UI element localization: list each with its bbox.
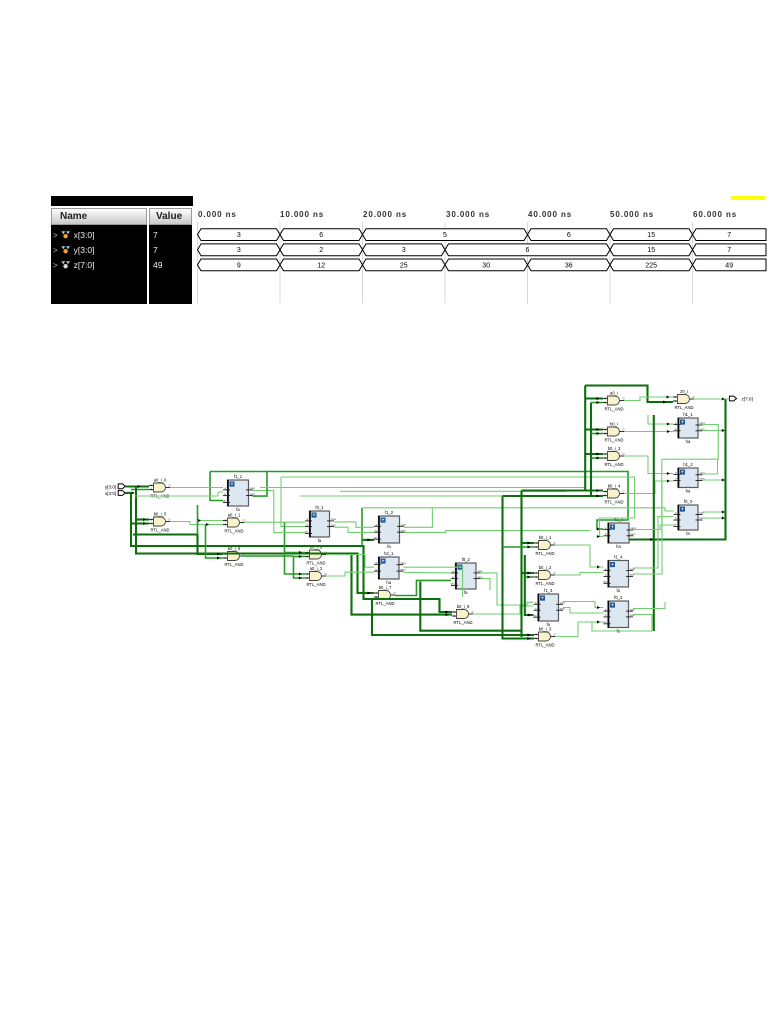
svg-text:O: O [554, 571, 556, 575]
wire junction [528, 634, 531, 637]
svg-text:cin: cin [223, 499, 227, 503]
block f0_4 (fa) [603, 595, 635, 634]
svg-text:fa: fa [318, 538, 322, 543]
wire junction [597, 428, 600, 431]
wire trunk bottom [420, 582, 521, 631]
wire top trunk to z0_i I1 [585, 386, 673, 403]
svg-text:O: O [169, 483, 171, 487]
svg-text:h2_1: h2_1 [384, 551, 394, 556]
block f1_1 (fa) [223, 474, 256, 512]
AND gate a0_i_2 [305, 566, 327, 587]
svg-text:RTL_AND: RTL_AND [375, 601, 394, 606]
AND gate b0_i_6 [305, 544, 327, 565]
svg-text:f0_1: f0_1 [315, 505, 324, 510]
wire junction [663, 401, 666, 404]
wire to h1_1 a [648, 415, 674, 424]
wire junction [667, 423, 670, 426]
AND gate b0_i_9 [223, 546, 245, 567]
svg-text:+: + [541, 596, 544, 601]
wire f1_4 sum up [633, 481, 662, 574]
svg-text:cin: cin [533, 613, 537, 617]
svg-text:30: 30 [482, 262, 490, 269]
svg-text:RTL_AND: RTL_AND [306, 582, 325, 587]
wire b0_i_2 O to f1_4 b [555, 573, 604, 576]
wire f1_1 sum riser [253, 472, 268, 497]
svg-text:RTL_AND: RTL_AND [150, 527, 169, 532]
svg-text:+: + [382, 559, 385, 564]
svg-text:ha: ha [386, 580, 391, 585]
svg-text:RTL_AND: RTL_AND [604, 406, 623, 411]
wire b0_i_1 O to f1_4 a [555, 545, 604, 567]
port y[3:0] [105, 484, 125, 489]
wire h1_3 sum trunk to z net [629, 400, 726, 540]
svg-text:f0_3: f0_3 [684, 499, 693, 504]
wire a0_i_2 O to h2_1 b [326, 572, 374, 576]
wire vertical trunk x585 [584, 386, 586, 491]
wire junction [650, 538, 653, 541]
svg-text:cin: cin [305, 530, 309, 534]
AND gate b0_i_3 [534, 626, 556, 647]
svg-text:RTL_AND: RTL_AND [453, 620, 472, 625]
wire junction [597, 535, 600, 538]
svg-text:3: 3 [402, 247, 406, 254]
block f1_4 (fa) [603, 555, 635, 594]
wire b0_i_3 O to f0_4 cin [555, 622, 604, 637]
wire junction [667, 430, 670, 433]
block h1_2 (ha) [674, 462, 706, 494]
wire to b0_i_4 I1 [503, 495, 604, 497]
svg-text:RTL_AND: RTL_AND [604, 437, 623, 442]
wire vertical trunk x591 [590, 403, 592, 497]
wire junction [597, 453, 600, 456]
AND gate b0_i_5 [149, 511, 171, 532]
svg-text:a0_i_1: a0_i_1 [228, 512, 241, 517]
wire junction [528, 542, 531, 545]
wire junction [299, 573, 302, 576]
svg-text:49: 49 [725, 262, 733, 269]
wire f0_1 sum to f1_2 b [334, 527, 374, 532]
svg-text:fa: fa [464, 590, 468, 595]
svg-text:ha: ha [616, 544, 621, 549]
wire z0_i O to z port [694, 398, 730, 400]
svg-text:cin: cin [603, 620, 607, 624]
wire a0_i_0 O to f1_1 a [170, 487, 223, 489]
svg-text:fa: fa [387, 544, 391, 549]
wire a0_i_1 O to f0_1 a [244, 521, 305, 523]
svg-text:2: 2 [319, 247, 323, 254]
svg-text:O: O [623, 396, 625, 400]
svg-text:fa: fa [686, 531, 690, 536]
svg-text:O: O [554, 632, 556, 636]
yellow highlight bar [731, 196, 765, 201]
svg-text:cin: cin [374, 535, 378, 539]
svg-text:ha: ha [686, 489, 691, 494]
svg-text:sum: sum [401, 568, 406, 571]
svg-text:O: O [623, 427, 625, 431]
svg-text:+: + [681, 507, 684, 512]
wire junction [143, 522, 146, 525]
svg-text:O: O [169, 517, 171, 521]
svg-text:+: + [382, 518, 385, 523]
AND gate b0_i_3 [603, 446, 625, 467]
wire junction [528, 614, 531, 617]
svg-text:7: 7 [727, 232, 731, 239]
wire to b0_i_5 I1 [131, 522, 149, 524]
svg-text:cin: cin [451, 582, 455, 586]
wire junction [722, 479, 725, 482]
wire junction [132, 491, 135, 494]
wire f0_1 cout to f1_2 a [334, 522, 374, 527]
wire vertical trunk x521 [520, 491, 522, 638]
svg-text:cout: cout [630, 567, 635, 571]
svg-text:3: 3 [237, 247, 241, 254]
wire to f0_1 b [281, 477, 305, 527]
svg-text:+: + [681, 470, 684, 475]
name panel body [51, 225, 147, 304]
wire junction [143, 518, 146, 521]
svg-text:carry: carry [401, 561, 407, 565]
svg-text:cin: cin [673, 523, 677, 527]
wire f0_3 sum to trunk [703, 517, 723, 519]
svg-text:9: 9 [237, 262, 241, 269]
wire vertical trunk x502 [503, 496, 535, 639]
value header [149, 208, 192, 226]
wire x net staircase [131, 493, 452, 613]
wire junction [597, 606, 600, 609]
svg-text:O: O [623, 452, 625, 456]
wire to b0_i_6 I0 [285, 552, 306, 554]
svg-text:12: 12 [317, 262, 325, 269]
svg-text:O: O [394, 591, 396, 595]
wire junction [722, 398, 725, 401]
AND gate a0_i [603, 390, 625, 411]
svg-text:+: + [313, 513, 316, 518]
svg-text:fa: fa [617, 588, 621, 593]
wire to b0_i_1 I0 [522, 542, 535, 544]
wire to a0_i_0 I1 [131, 489, 149, 491]
svg-text:15: 15 [647, 247, 655, 254]
wire junction [722, 511, 725, 514]
wire long net to f0_3 a [362, 508, 674, 511]
signal rows [53, 228, 145, 243]
wire b0_i_4 O to h1_2 b [624, 481, 674, 494]
waveform toolbar strip [51, 196, 193, 206]
wire to b0_i_2 I0 [522, 572, 535, 574]
wire junction [528, 572, 531, 575]
svg-text:f1_3: f1_3 [544, 588, 553, 593]
block f1_3 (fa) [533, 588, 565, 627]
svg-text:a0_i_2: a0_i_2 [310, 566, 323, 571]
wire junction [597, 489, 600, 492]
svg-text:f1_1: f1_1 [234, 474, 243, 479]
wire junction [597, 397, 600, 400]
wire f1_1 cout to f0_1 cin [253, 491, 306, 533]
svg-text:h1_1: h1_1 [683, 412, 693, 417]
svg-text:cout: cout [331, 517, 336, 521]
svg-text:b0_i_4: b0_i_4 [608, 483, 621, 488]
block f1_2 (fa) [374, 510, 407, 549]
wire to b0_i_4 I0 [522, 489, 604, 491]
waveform hexagons [197, 222, 199, 304]
AND gate a0_i_0 [149, 477, 171, 498]
AND gate z0_i [673, 389, 695, 410]
wire to f1_2 cin [362, 539, 374, 541]
wire to b0_i_3 I1 [591, 457, 603, 459]
svg-text:O: O [554, 541, 556, 545]
wire junction [299, 551, 302, 554]
svg-text:25: 25 [400, 262, 408, 269]
wire h2_1 sum to f0_2 a [404, 571, 452, 574]
block h1_3 (ha) [604, 517, 637, 549]
svg-text:RTL_AND: RTL_AND [535, 551, 554, 556]
wire to b0_i_3 I0 [372, 599, 534, 636]
wire junction [217, 557, 220, 560]
wire junction [667, 472, 670, 475]
wire feeder b0_i_9 I0 [133, 535, 223, 555]
block f0_1 (fa) [305, 505, 337, 543]
wire junction [722, 429, 725, 432]
wire b0_i_3 O to h1_2 a [624, 456, 674, 474]
wire junction [597, 566, 600, 569]
svg-text:f0_2: f0_2 [462, 557, 471, 562]
svg-text:RTL_AND: RTL_AND [535, 642, 554, 647]
wire to f1_1 cin [210, 472, 223, 501]
wire junction [299, 577, 302, 580]
wire to b0_i_3 I0 [585, 453, 603, 455]
svg-text:cout: cout [250, 486, 255, 490]
svg-text:RTL_AND: RTL_AND [535, 581, 554, 586]
wire to b0_i I1 [591, 433, 603, 435]
svg-text:5: 5 [443, 232, 447, 239]
wire vertical x654 [653, 415, 655, 631]
svg-text:b0_i_7: b0_i_7 [379, 585, 392, 590]
AND gate b0_i_1 [534, 535, 556, 556]
wire junction [528, 576, 531, 579]
wire to a0_i_1 I1 [206, 524, 224, 526]
wire feeder a0_i_2 I0 [285, 523, 306, 575]
wire junction [446, 611, 449, 614]
svg-text:f1_4: f1_4 [614, 555, 623, 560]
wire to b0_i_5 I0 [136, 518, 149, 520]
svg-text:O: O [325, 572, 327, 576]
svg-text:cout: cout [630, 607, 635, 611]
svg-text:RTL_AND: RTL_AND [604, 499, 623, 504]
wire junction [138, 485, 141, 488]
block f0_2 (fa) [451, 557, 483, 595]
wire staircase to b0_i_8 [352, 554, 453, 615]
svg-text:b0_i_3: b0_i_3 [608, 446, 621, 451]
wire b0_i_5 O to a0_i_1 I1 [170, 522, 223, 525]
wire to a0_i I1 [591, 402, 603, 404]
svg-text:b0_i_1: b0_i_1 [539, 535, 552, 540]
wire junction [597, 432, 600, 435]
svg-text:225: 225 [645, 262, 657, 269]
block h1_1 (ha) [674, 412, 706, 444]
wire junction [597, 457, 600, 460]
svg-text:a0_i_0: a0_i_0 [154, 477, 167, 482]
wire junction [368, 538, 371, 541]
svg-text:RTL_AND: RTL_AND [306, 560, 325, 565]
wire f1_2 sum long [404, 531, 590, 533]
svg-text:z0_i: z0_i [680, 389, 688, 394]
name header [51, 208, 147, 226]
wire junction [597, 401, 600, 404]
wire top net 1 [210, 472, 628, 530]
wire junction [597, 495, 600, 498]
svg-text:RTL_AND: RTL_AND [224, 562, 243, 567]
wire to b0_i I0 [585, 428, 603, 430]
wire long net y487 [260, 487, 585, 489]
wire f0_3 cout to trunk [703, 511, 723, 513]
wire f1_4 cout to f0_3 b [633, 517, 674, 569]
AND gate b0_i [603, 421, 625, 442]
wire to b0_i_1 I1 [503, 546, 535, 548]
svg-text:RTL_AND: RTL_AND [224, 528, 243, 533]
wire net y496 from left [300, 495, 503, 497]
AND gate a0_i_1 [223, 512, 245, 533]
svg-text:O: O [693, 395, 695, 399]
wire f0_2 sum [481, 579, 491, 590]
wire to b0_i_2 I1 [525, 576, 534, 578]
wire vertical x661 [661, 459, 663, 533]
svg-text:b0_i_2: b0_i_2 [539, 565, 552, 570]
wire junction [528, 546, 531, 549]
wire b0_i_6 O to h2_1 a [326, 555, 374, 568]
wire junction [206, 523, 209, 526]
svg-text:b0_i: b0_i [610, 421, 618, 426]
wire h1_2 sum to trunk [703, 479, 723, 481]
wire y port to a0_i_0 I0 [125, 485, 149, 487]
svg-text:ha: ha [686, 439, 691, 444]
wire f1_2 cout riser [404, 508, 432, 528]
wire vertical [361, 508, 363, 546]
svg-text:sum: sum [631, 533, 636, 536]
wire junction [597, 528, 600, 531]
wire junction [198, 519, 201, 522]
wire to a0_i_2 I1 [294, 556, 306, 578]
wire f0_4 sum loop [592, 615, 652, 632]
svg-text:RTL_AND: RTL_AND [674, 405, 693, 410]
svg-text:+: + [231, 482, 234, 487]
svg-text:O: O [472, 610, 474, 614]
svg-text:cout: cout [401, 523, 406, 527]
svg-text:+: + [681, 420, 684, 425]
wire junction [528, 637, 531, 640]
wire junction [217, 553, 220, 556]
svg-text:6: 6 [319, 232, 323, 239]
svg-text:z[7:0]: z[7:0] [742, 397, 753, 402]
wire to a0_i_1 I0 [198, 520, 224, 522]
wire f1_3 sum to f0_4 b [563, 608, 604, 614]
wire top net 2 [281, 477, 635, 537]
svg-text:h1_2: h1_2 [683, 462, 693, 467]
svg-text:b0_i_8: b0_i_8 [457, 604, 470, 609]
svg-text:O: O [623, 489, 625, 493]
svg-text:f1_2: f1_2 [385, 510, 394, 515]
svg-text:cout: cout [700, 511, 705, 515]
wire b0_i_7 O to f0_2 cin [395, 580, 451, 595]
wire y net staircase [136, 486, 374, 593]
value panel body [149, 225, 192, 304]
wire f0_2 cout to f1_3 a [481, 573, 534, 605]
wire a0_i O to z0_i I0 [624, 397, 673, 401]
wire junction [722, 517, 725, 520]
AND gate b0_i_4 [603, 483, 625, 504]
wire vertical x197 [197, 505, 199, 535]
svg-text:x[3:0]: x[3:0] [105, 491, 116, 496]
wire to f1_1 b [135, 492, 223, 496]
svg-text:f0_4: f0_4 [614, 595, 623, 600]
wire h1_1 sum to trunk [703, 430, 723, 432]
wire to f1_3 cin [525, 555, 534, 615]
wire junction [446, 613, 449, 616]
wire x port [125, 492, 131, 494]
wire h1_2 carry up [703, 460, 718, 475]
wire to b0_i_6 I1 [294, 556, 306, 558]
svg-text:36: 36 [565, 262, 573, 269]
svg-text:cin: cin [603, 580, 607, 584]
svg-text:15: 15 [647, 232, 655, 239]
svg-text:a0_i: a0_i [610, 390, 618, 395]
AND gate b0_i_7 [374, 585, 396, 606]
wire junction [368, 592, 371, 595]
wire f0_4 cout [633, 602, 665, 609]
AND gate b0_i_8 [452, 604, 474, 625]
svg-text:7: 7 [727, 247, 731, 254]
svg-text:b0_i_5: b0_i_5 [154, 511, 167, 516]
port x[3:0] [105, 491, 125, 496]
svg-text:y[3:0]: y[3:0] [105, 484, 116, 489]
wire h1_1 carry loop [662, 425, 719, 460]
svg-text:RTL_AND: RTL_AND [604, 462, 623, 467]
svg-text:+: + [611, 603, 614, 608]
svg-text:6: 6 [526, 247, 530, 254]
AND gate b0_i_2 [534, 565, 556, 586]
wire junction [597, 621, 600, 624]
wire h1_3 carry to f0_3 cin [634, 525, 674, 530]
wire junction [667, 396, 670, 399]
wire b0_i_9 O [244, 555, 294, 557]
wire to a0_i I0 [585, 397, 603, 399]
svg-text:6: 6 [567, 232, 571, 239]
port z[7:0] [730, 396, 753, 401]
wire junction [299, 555, 302, 558]
wire feeder b0_i_9 I1 [206, 525, 224, 559]
wire f1_3 cout to f0_4 a [563, 602, 604, 608]
svg-text:sum: sum [331, 524, 336, 527]
wire junction [667, 480, 670, 483]
wire h2_1 carry [404, 567, 463, 597]
svg-text:3: 3 [237, 232, 241, 239]
block h2_1 (ha) [374, 551, 407, 585]
wire b0_i_8 O to f1_3 b [473, 606, 534, 614]
block f0_3 (fa) [673, 499, 705, 536]
wire b0_i O to h1_1 b [624, 431, 674, 433]
wire long net y491 [340, 490, 565, 493]
svg-text:+: + [611, 562, 614, 567]
svg-text:+: + [611, 525, 614, 530]
timeline labels [198, 210, 237, 219]
